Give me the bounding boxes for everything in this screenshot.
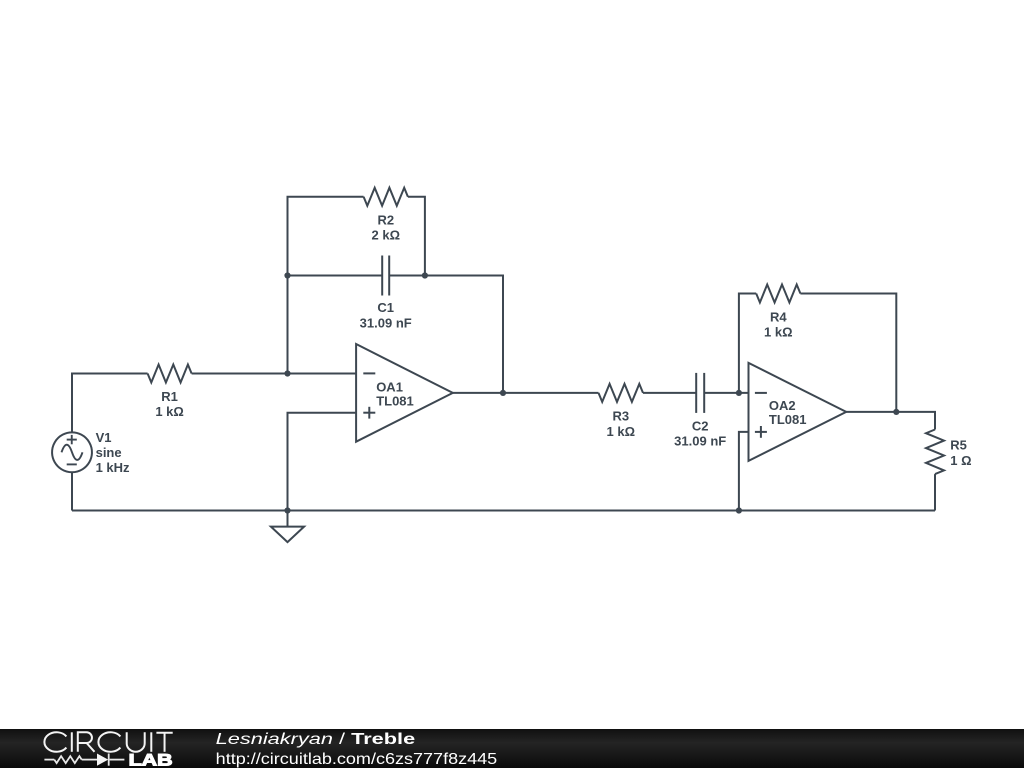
svg-text:TL081: TL081	[376, 394, 414, 409]
svg-text:1 Ω: 1 Ω	[950, 453, 971, 468]
svg-text:R3: R3	[612, 409, 629, 424]
svg-text:R1: R1	[161, 389, 178, 404]
svg-text:sine: sine	[96, 445, 122, 460]
svg-text:C1: C1	[377, 300, 394, 315]
svg-text:OA1: OA1	[376, 380, 403, 395]
svg-text:1 kΩ: 1 kΩ	[607, 424, 636, 439]
svg-text:TL081: TL081	[769, 412, 807, 427]
svg-text:31.09 nF: 31.09 nF	[674, 433, 726, 448]
svg-text:OA2: OA2	[769, 398, 796, 413]
svg-text:2 kΩ: 2 kΩ	[372, 228, 401, 243]
svg-text:1 kΩ: 1 kΩ	[155, 404, 184, 419]
svg-text:R4: R4	[770, 310, 787, 325]
svg-text:V1: V1	[96, 430, 112, 445]
svg-text:1 kHz: 1 kHz	[96, 460, 130, 475]
svg-text:LAB: LAB	[129, 752, 173, 768]
svg-text:R5: R5	[950, 438, 967, 453]
svg-text:1 kΩ: 1 kΩ	[764, 325, 793, 340]
svg-text:R2: R2	[377, 213, 394, 228]
svg-text:C2: C2	[692, 418, 709, 433]
svg-text:Lesniakryan / Treble: Lesniakryan / Treble	[216, 731, 416, 748]
svg-text:31.09 nF: 31.09 nF	[360, 315, 412, 330]
svg-text:http://circuitlab.com/c6zs777f: http://circuitlab.com/c6zs777f8z445	[216, 751, 498, 768]
